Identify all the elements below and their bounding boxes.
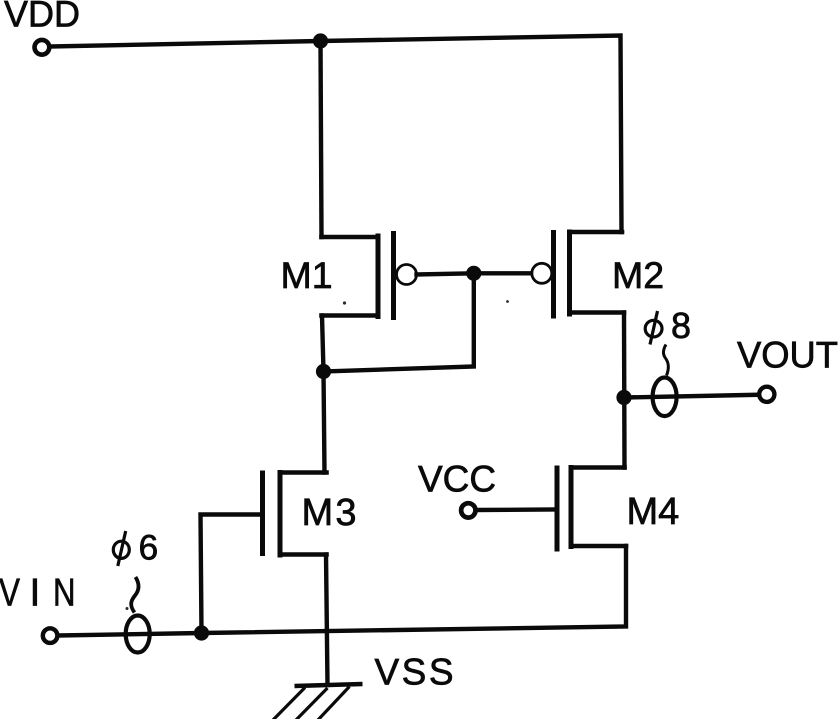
- svg-text:N: N: [53, 572, 76, 615]
- svg-text:6: 6: [139, 528, 159, 568]
- svg-text:8: 8: [671, 305, 691, 346]
- svg-text:M4: M4: [627, 491, 680, 533]
- svg-text:M2: M2: [612, 254, 664, 296]
- svg-text:I: I: [30, 572, 41, 615]
- svg-text:V: V: [0, 572, 20, 615]
- svg-text:M1: M1: [281, 254, 333, 296]
- svg-text:VCC: VCC: [418, 459, 496, 500]
- svg-text:VOUT: VOUT: [737, 335, 838, 376]
- svg-text:VSS: VSS: [375, 652, 454, 693]
- svg-text:M3: M3: [302, 492, 357, 534]
- svg-text:VDD: VDD: [4, 0, 80, 35]
